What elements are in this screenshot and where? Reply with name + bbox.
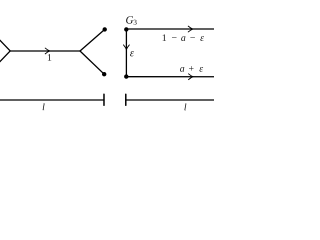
svg-text:+: + <box>189 64 195 75</box>
label 1 - a - eps <box>162 33 204 44</box>
wire left ruler line <box>0 99 104 101</box>
arrowhead on G3 bottom edge (right) <box>188 74 193 80</box>
wire right ruler left tick <box>125 94 127 105</box>
wire G3 vertical edge <box>125 29 127 76</box>
node upper dot of left tree <box>103 27 107 31</box>
svg-text:ε: ε <box>200 33 204 44</box>
svg-text:l: l <box>184 102 187 113</box>
wire right ruler line <box>126 99 214 101</box>
wire right fork lower branch <box>80 51 104 74</box>
wire right fork upper branch <box>80 29 105 51</box>
wire G3 bottom edge <box>126 76 214 78</box>
node G3 top vertex <box>124 27 128 31</box>
svg-text:1: 1 <box>162 33 167 44</box>
arrowhead on left edge (right) <box>45 48 50 54</box>
node G3 bottom vertex <box>124 74 128 78</box>
label a + eps <box>180 64 204 75</box>
svg-text:−: − <box>172 33 178 44</box>
wire G3 top edge <box>126 28 214 30</box>
arrowhead on G3 vertical edge (down) <box>124 45 130 50</box>
svg-text:a: a <box>180 64 185 75</box>
node lower dot of left tree <box>102 72 106 76</box>
arrowhead on G3 top edge (right) <box>188 26 193 32</box>
svg-text:ε: ε <box>199 64 203 75</box>
wire left fork upper branch <box>0 38 10 51</box>
svg-text:3: 3 <box>133 18 137 27</box>
wire left fork lower branch <box>0 51 10 64</box>
wire left ruler right tick <box>103 94 105 105</box>
svg-text:−: − <box>190 33 196 44</box>
svg-text:ε: ε <box>130 48 135 59</box>
svg-text:1: 1 <box>47 53 52 64</box>
svg-text:l: l <box>42 102 45 113</box>
wire left horizontal edge <box>10 50 80 52</box>
svg-text:a: a <box>181 33 186 44</box>
